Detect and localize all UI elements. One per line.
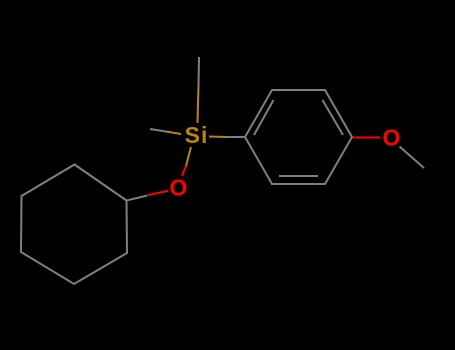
methyl bond up from Si (Si half) bbox=[198, 85, 199, 123]
methyl bond left from Si (Si half) bbox=[166, 132, 181, 135]
svg-text:O: O bbox=[170, 175, 188, 201]
benzene ring bbox=[245, 90, 352, 184]
bond O to cyclohexyl CH (O half) bbox=[148, 191, 168, 195]
bond O to cyclohexyl CH (C half) bbox=[127, 196, 148, 201]
benzene double bond upper-right bbox=[323, 100, 344, 135]
benzene double bond bottom bbox=[279, 175, 318, 177]
bond Si to O (Si half) bbox=[186, 147, 191, 166]
bond ring to OMe O bbox=[353, 137, 380, 139]
svg-text:Si: Si bbox=[185, 122, 209, 148]
bond Si to phenyl ring (Si half) bbox=[209, 136, 226, 139]
methoxy methyl bond bbox=[400, 147, 425, 169]
cyclohexane ring bbox=[21, 165, 127, 285]
methyl bond up from Si (C half) bbox=[198, 57, 201, 85]
svg-text:O: O bbox=[383, 125, 401, 151]
bond Si to phenyl ring (C half) bbox=[226, 136, 244, 138]
methyl bond left from Si (C half) bbox=[150, 129, 166, 132]
benzene double bond upper-left bbox=[254, 100, 274, 135]
bond Si to O (O half) bbox=[182, 166, 186, 176]
